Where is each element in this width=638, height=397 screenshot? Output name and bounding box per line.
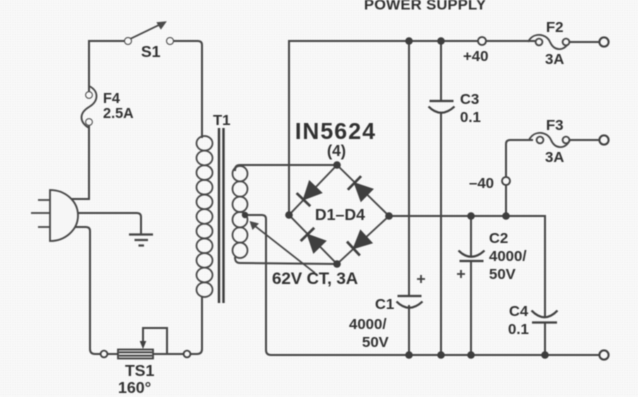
wire: bridge right node to -40 line xyxy=(389,215,545,217)
wire: plug middle to ground xyxy=(75,213,141,234)
svg-text:POWER SUPPLY: POWER SUPPLY xyxy=(364,0,487,14)
wire: C3 column xyxy=(440,41,442,355)
diode D2 (bottom-left) xyxy=(301,228,327,254)
fuse F4 xyxy=(82,86,97,128)
wire: left corner to S1 left circle xyxy=(89,40,125,42)
wire: TS1 right circle to transformer primary bottom xyxy=(190,297,202,354)
terminal circle (top right output) xyxy=(599,37,608,46)
ground symbol xyxy=(129,235,153,246)
ac plug P1 xyxy=(31,190,78,241)
svg-text:(4): (4) xyxy=(327,143,346,160)
capacitor C3 xyxy=(429,101,455,113)
wire: S1 right to transformer primary top xyxy=(174,41,202,137)
terminal -40 output circle (inline) xyxy=(502,177,510,185)
transformer T1 core xyxy=(219,128,224,303)
fuse F3 xyxy=(529,133,570,147)
svg-text:C1: C1 xyxy=(375,296,394,313)
svg-text:160°: 160° xyxy=(118,380,151,397)
thermal switch TS1 xyxy=(101,350,191,359)
svg-text:0.1: 0.1 xyxy=(508,321,529,338)
svg-text:F4: F4 xyxy=(103,91,120,107)
svg-text:3A: 3A xyxy=(545,149,564,166)
wire: +rail vertical drop to bridge left node xyxy=(288,41,290,215)
svg-text:50V: 50V xyxy=(489,266,516,283)
wire: plug top to corner xyxy=(70,198,89,200)
svg-text:–40: –40 xyxy=(469,175,494,192)
wire: F4 top circle up to corner xyxy=(88,41,90,92)
wire: C4 column xyxy=(544,216,546,355)
terminal circle (ground rail right) xyxy=(599,350,608,359)
wire: secondary center tap to ground rail xyxy=(245,215,600,355)
wire: plug bottom down the left side xyxy=(70,227,101,354)
capacitor C1 xyxy=(397,296,423,308)
diode D4 (bottom-right) xyxy=(347,230,373,256)
diode D1 (top-left) xyxy=(297,181,323,207)
wire: F3 right to terminal xyxy=(569,139,600,141)
svg-text:C3: C3 xyxy=(460,91,479,108)
label 62V CT, 3A annotation arrow xyxy=(255,226,315,273)
svg-text:+40: +40 xyxy=(463,48,488,65)
plus sign C2 xyxy=(457,270,465,278)
svg-text:4000/: 4000/ xyxy=(489,248,527,265)
svg-text:62V CT, 3A: 62V CT, 3A xyxy=(272,269,358,288)
node: junction dots xyxy=(242,37,549,359)
wire: C1 column (+40 to ground) xyxy=(408,41,410,355)
svg-text:4000/: 4000/ xyxy=(349,316,387,333)
svg-text:0.1: 0.1 xyxy=(460,109,481,126)
svg-text:2.5A: 2.5A xyxy=(103,106,134,122)
capacitor C4 xyxy=(532,311,558,323)
wire: secondary bottom to bridge bottom node (crossover at x=266) xyxy=(235,258,337,264)
svg-text:D1–D4: D1–D4 xyxy=(315,207,365,224)
fuse F2 xyxy=(528,35,569,49)
terminal +40 output circle (inline) xyxy=(478,37,486,45)
wire: -40 branch up to terminal xyxy=(506,140,532,216)
svg-text:3A: 3A xyxy=(545,51,564,68)
bridge rectifier diamond wires xyxy=(289,165,389,264)
svg-text:F3: F3 xyxy=(546,117,564,134)
wire: TS1 box to right circle xyxy=(153,353,184,355)
wire: TS1 left circle to box xyxy=(107,353,118,355)
terminal circle (F3 right output) xyxy=(599,135,608,144)
svg-text:S1: S1 xyxy=(141,44,161,61)
plus sign C1 xyxy=(417,275,425,283)
svg-text:C4: C4 xyxy=(509,303,529,320)
svg-text:C2: C2 xyxy=(489,230,508,247)
wire: TS1 actuator hook xyxy=(143,328,167,353)
svg-text:TS1: TS1 xyxy=(125,363,154,380)
wire: top rail (+40 net) xyxy=(289,40,536,42)
wire: F4 bottom circle down to plug top wire corner xyxy=(88,126,90,199)
capacitor C2 xyxy=(459,251,485,262)
switch S1 xyxy=(125,25,174,45)
arrowhead of S1 xyxy=(156,21,167,30)
wire: C2 column xyxy=(470,216,472,355)
transformer T1 primary winding xyxy=(197,136,213,297)
svg-text:IN5624: IN5624 xyxy=(295,118,375,144)
diode D3 (top-right) xyxy=(348,176,374,202)
svg-text:50V: 50V xyxy=(362,334,389,351)
wire: top rail after F2 xyxy=(568,41,600,43)
transformer T1 secondary winding xyxy=(233,166,248,258)
arrowhead TS1 actuator xyxy=(140,341,147,349)
wire: secondary top to bridge top node (crossover at x=289) xyxy=(235,165,337,170)
svg-text:F2: F2 xyxy=(546,19,564,36)
svg-text:T1: T1 xyxy=(213,112,231,129)
